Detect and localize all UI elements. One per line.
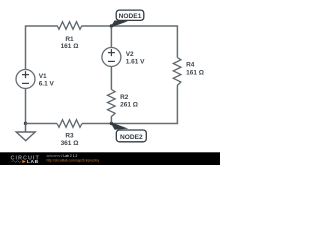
node ground junction dot: [24, 122, 27, 125]
wire V2- to R2: [110, 67, 112, 90]
svg-text:V2: V2: [126, 51, 134, 58]
wire ground junction to R3: [26, 123, 58, 125]
svg-text:161 Ω: 161 Ω: [61, 43, 79, 50]
svg-text:1.61 V: 1.61 V: [126, 59, 145, 66]
svg-text:R3: R3: [65, 132, 74, 139]
ground: [16, 124, 35, 141]
resistor R3: [57, 120, 82, 128]
node flag NODE2: [110, 122, 146, 142]
wire R3 to NODE2: [82, 123, 111, 125]
voltage source V2: [102, 48, 121, 67]
svg-text:http://circuitlab.com/cap26.lr: http://circuitlab.com/cap26.lrqny.bbq: [47, 158, 100, 162]
wire NODE1 to V2+: [110, 26, 112, 47]
node flag NODE1: [110, 10, 144, 28]
svg-text:NODE2: NODE2: [120, 134, 143, 141]
svg-text:R4: R4: [186, 62, 195, 69]
svg-text:261 Ω: 261 Ω: [120, 102, 138, 109]
svg-text:R2: R2: [120, 94, 129, 101]
resistor R1: [57, 22, 82, 30]
svg-text:V1: V1: [39, 73, 47, 80]
wire R2 to NODE2: [110, 118, 112, 124]
wire NODE1 to top-right corner: [111, 26, 177, 58]
resistor R4: [173, 58, 181, 88]
svg-text:6.1 V: 6.1 V: [39, 81, 55, 88]
wire R1 to NODE1: [82, 25, 111, 27]
voltage source V1: [16, 70, 35, 89]
svg-text:LAB: LAB: [27, 159, 39, 165]
wire V1- to ground junction: [25, 89, 27, 124]
svg-text:161 Ω: 161 Ω: [186, 69, 204, 76]
CircuitLab logo arrow: [22, 160, 26, 163]
svg-text:anbutenv / Lab 2 1.2: anbutenv / Lab 2 1.2: [47, 154, 78, 158]
svg-text:NODE1: NODE1: [119, 13, 142, 20]
CircuitLab logo wave: [12, 161, 22, 163]
svg-text:361 Ω: 361 Ω: [61, 140, 79, 147]
resistor R2: [108, 90, 116, 119]
wire NODE2 to bottom-right corner: [111, 88, 177, 124]
node NODE1 junction dot: [110, 24, 113, 27]
watermark bar: [0, 152, 220, 165]
svg-text:R1: R1: [65, 36, 74, 43]
node NODE2 junction dot: [110, 122, 113, 125]
wire top-left from V1+ to R1: [26, 26, 58, 69]
